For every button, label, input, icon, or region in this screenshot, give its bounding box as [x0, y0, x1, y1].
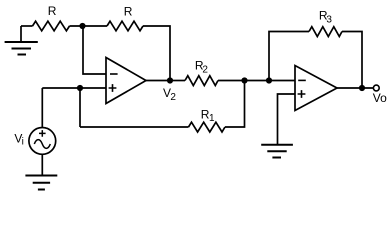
- resistor R3: [309, 9, 342, 37]
- node V2: [163, 77, 176, 102]
- resistor R1: [189, 108, 226, 133]
- junction (plus input / R1 branch): [77, 85, 83, 91]
- svg-text:Vo: Vo: [373, 91, 387, 105]
- wire U2 output: [337, 87, 374, 89]
- wire U1 output: [146, 80, 170, 82]
- svg-text:1: 1: [209, 113, 215, 124]
- svg-text:R: R: [48, 4, 57, 18]
- wire R1 to node A: [225, 81, 245, 128]
- wire non-inverting input of U1: [42, 87, 106, 89]
- svg-text:2: 2: [170, 92, 176, 103]
- op-amp U2: [295, 66, 337, 111]
- terminal Vo (open circle): [373, 85, 379, 91]
- source Vi (AC source): [14, 88, 55, 176]
- wire junction down to R1 line: [79, 88, 81, 127]
- op-amp U1: [106, 58, 146, 104]
- svg-text:R: R: [124, 5, 133, 19]
- wire R to node: [70, 25, 108, 27]
- wire R3 to U2 output: [342, 32, 362, 89]
- wire ground to R: [21, 25, 33, 27]
- node (junction R / feedback R / inverting input): [79, 23, 85, 29]
- ground GND1 (top-left): [5, 26, 38, 55]
- resistor R (feedback of U1): [107, 5, 143, 31]
- ground GND2 (below Vi): [25, 176, 57, 190]
- wire R2 to node A: [218, 80, 245, 82]
- wire node B up to R3: [269, 32, 309, 81]
- svg-text:3: 3: [326, 14, 332, 25]
- wire V2 to R2: [170, 80, 185, 82]
- wire to R1: [80, 126, 189, 128]
- svg-text:i: i: [22, 137, 24, 148]
- node B (junction R3 feedback): [266, 77, 272, 83]
- ground GND3 (below U2): [261, 145, 293, 158]
- node A (junction R2/R1): [241, 77, 247, 83]
- wire node to inverting input of U1: [83, 26, 106, 74]
- node on output: [359, 85, 365, 91]
- wire feedback R to U1 output: [143, 26, 170, 81]
- wire U2 non-inverting input to ground: [278, 94, 296, 145]
- svg-text:2: 2: [202, 64, 208, 75]
- resistor R (input): [33, 4, 70, 31]
- wire node A to U2 inverting input: [245, 80, 296, 82]
- resistor R2: [185, 58, 218, 85]
